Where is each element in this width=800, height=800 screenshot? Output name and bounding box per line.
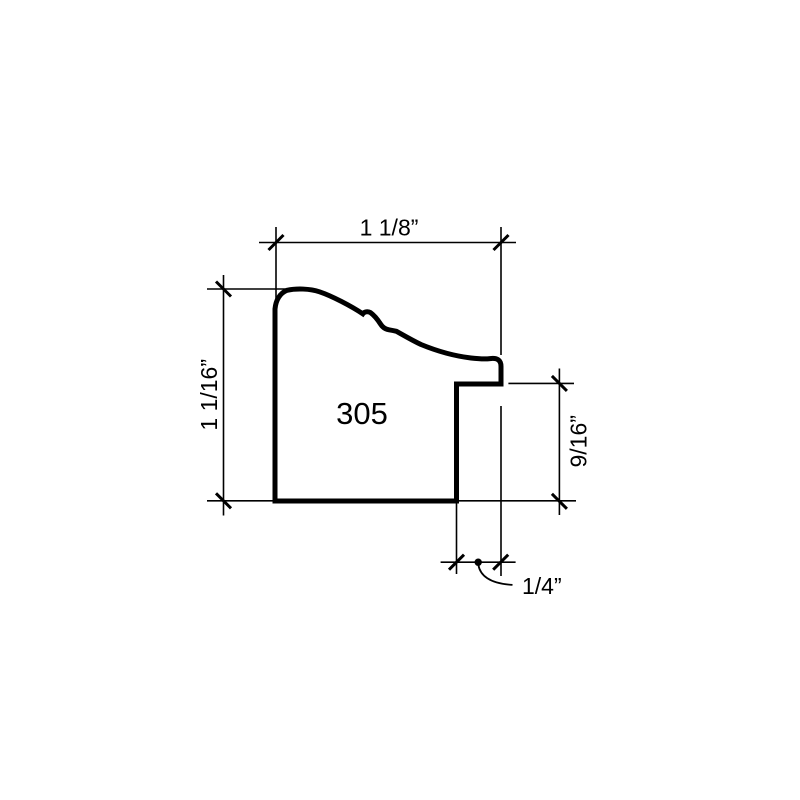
svg-text:305: 305 xyxy=(336,396,388,431)
tick right of 1/4 dimension xyxy=(493,555,508,570)
top extension line of left dimension xyxy=(207,288,286,290)
svg-text:1 1/8”: 1 1/8” xyxy=(360,215,419,241)
tick left of 1/4 dimension xyxy=(449,555,464,570)
moulding profile 305 outline xyxy=(275,289,501,501)
tick left of top dimension xyxy=(269,235,284,250)
tick right of top dimension xyxy=(494,235,509,250)
tick top of left dimension xyxy=(216,282,231,297)
left extension line of 1/4 dimension xyxy=(456,504,458,575)
right dimension line 9/16 xyxy=(558,369,560,516)
bottom extension line of left dimension xyxy=(207,500,276,502)
tick bottom of left dimension xyxy=(216,493,231,508)
tick top of right dimension xyxy=(552,376,567,391)
svg-text:1/4”: 1/4” xyxy=(522,573,562,599)
right extension line of top dimension (upper segment) xyxy=(500,227,502,355)
bottom extension line of right dimension xyxy=(458,500,576,502)
top dimension line 1 1/8 xyxy=(259,242,516,244)
svg-text:1 1/16”: 1 1/16” xyxy=(196,359,222,431)
dot on 1/4 dimension xyxy=(475,559,482,566)
svg-text:9/16”: 9/16” xyxy=(566,415,592,467)
left dimension line 1 1/16 xyxy=(223,275,225,516)
left extension line of top dimension xyxy=(275,227,277,310)
right extension line lower segment (shared with 1/4 dimension) xyxy=(500,406,502,576)
top extension line of right dimension xyxy=(508,382,574,384)
bottom dimension line 1/4 xyxy=(441,561,516,563)
leader from dot to 1/4 label xyxy=(478,565,512,585)
tick bottom of right dimension xyxy=(552,494,567,509)
